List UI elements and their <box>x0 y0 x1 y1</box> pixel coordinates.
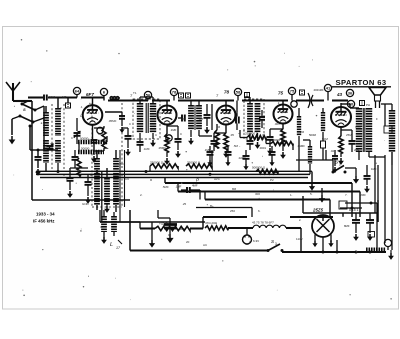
svg-text:250000 Ω: 250000 Ω <box>245 132 259 136</box>
svg-text:2M: 2M <box>300 130 305 134</box>
svg-text:75: 75 <box>290 88 295 93</box>
svg-text:25M: 25M <box>346 133 352 137</box>
svg-text:fil: fil <box>330 239 333 243</box>
svg-text:2.: 2. <box>140 193 143 197</box>
svg-text:41: 41 <box>326 85 331 90</box>
svg-text:50M: 50M <box>322 137 328 141</box>
svg-text:C14: C14 <box>355 125 361 129</box>
svg-text:.0001: .0001 <box>259 146 266 150</box>
svg-text:75: 75 <box>278 91 284 96</box>
svg-text:GND: GND <box>82 202 90 206</box>
svg-text:.0001MF: .0001MF <box>313 88 324 92</box>
svg-text:58: 58 <box>236 89 241 94</box>
svg-text:8MF: 8MF <box>344 224 350 228</box>
svg-text:50000: 50000 <box>80 137 89 141</box>
svg-text:C: C <box>60 106 62 110</box>
svg-text:C: C <box>63 173 65 177</box>
svg-text:L: L <box>110 242 113 248</box>
svg-text:6.: 6. <box>258 209 261 213</box>
svg-text:F: F <box>376 117 378 121</box>
svg-text:.01MF: .01MF <box>297 144 305 148</box>
svg-text:IF 456 kHz: IF 456 kHz <box>33 219 55 224</box>
svg-text:7.: 7. <box>345 193 348 197</box>
svg-text:.5MF: .5MF <box>162 185 169 189</box>
svg-text:6.3V: 6.3V <box>253 239 259 243</box>
svg-text:.001: .001 <box>274 122 280 126</box>
svg-text:2MF: 2MF <box>354 148 360 152</box>
svg-text:500000 Ω: 500000 Ω <box>270 138 284 142</box>
svg-text:.05MF: .05MF <box>158 146 166 150</box>
svg-text:C: C <box>71 136 73 140</box>
svg-text:.1MF: .1MF <box>143 147 150 151</box>
svg-text:.1MF: .1MF <box>175 185 182 189</box>
svg-text:5.: 5. <box>310 192 313 196</box>
svg-text:36: 36 <box>348 90 353 95</box>
svg-text:S: S <box>23 107 26 112</box>
svg-text:1.: 1. <box>168 233 171 237</box>
svg-text:64: 64 <box>75 88 80 93</box>
svg-text:C: C <box>180 132 182 136</box>
svg-text:T1: T1 <box>133 91 137 95</box>
svg-text:C9: C9 <box>125 177 129 181</box>
svg-text:300: 300 <box>98 132 103 136</box>
svg-text:.5M: .5M <box>233 144 239 148</box>
svg-text:250000 Ω: 250000 Ω <box>187 161 201 165</box>
svg-text:.1MF: .1MF <box>170 128 177 132</box>
svg-text:1.: 1. <box>290 193 293 197</box>
svg-text:78: 78 <box>172 89 177 94</box>
svg-text:AVC: AVC <box>214 177 221 181</box>
svg-text:2MF: 2MF <box>360 193 366 197</box>
svg-text:PH: PH <box>366 103 370 107</box>
svg-text:.25: .25 <box>182 202 187 206</box>
svg-text:2: 2 <box>339 163 341 167</box>
svg-text:.1MF: .1MF <box>204 148 211 152</box>
svg-text:.05MF: .05MF <box>108 119 117 123</box>
svg-text:C: C <box>243 129 245 133</box>
svg-text:3.: 3. <box>100 225 103 229</box>
svg-text:20: 20 <box>186 240 190 244</box>
svg-text:1M: 1M <box>216 125 221 129</box>
svg-text:500M: 500M <box>309 133 317 137</box>
svg-text:47Ω 20Ω: 47Ω 20Ω <box>205 221 218 225</box>
svg-text:1933 - 34: 1933 - 34 <box>36 212 55 217</box>
svg-text:2M: 2M <box>181 117 186 121</box>
svg-text:.0001: .0001 <box>48 95 56 99</box>
svg-text:6F7: 6F7 <box>86 92 94 97</box>
svg-text:250: 250 <box>230 209 235 213</box>
svg-text:.3M: .3M <box>198 117 204 121</box>
svg-text:2.: 2. <box>299 218 302 222</box>
svg-text:C: C <box>129 122 131 126</box>
svg-text:8M: 8M <box>232 187 237 191</box>
svg-text:4MF: 4MF <box>192 184 198 188</box>
svg-text:SPARTON 63: SPARTON 63 <box>336 78 387 87</box>
svg-text:MF: MF <box>62 95 66 99</box>
svg-text:.1: .1 <box>80 105 83 109</box>
svg-text:43 75 78 78 6F7: 43 75 78 78 6F7 <box>252 221 274 225</box>
svg-text:78: 78 <box>224 90 230 95</box>
svg-text:.05: .05 <box>230 133 234 137</box>
svg-text:43: 43 <box>336 92 343 97</box>
svg-text:250000 Ω: 250000 Ω <box>150 161 164 165</box>
svg-text:25Z5: 25Z5 <box>312 208 324 213</box>
svg-text:500000 Ω: 500000 Ω <box>252 166 266 170</box>
svg-text:OSC: OSC <box>118 162 125 166</box>
svg-text:1MF: 1MF <box>371 167 377 171</box>
svg-text:.02MF: .02MF <box>238 156 246 160</box>
svg-text:B+: B+ <box>210 204 214 208</box>
svg-text:110V: 110V <box>296 237 303 241</box>
svg-text:300: 300 <box>255 192 260 196</box>
svg-text:+41 Ω: +41 Ω <box>159 222 168 226</box>
svg-text:3: 3 <box>275 242 277 246</box>
svg-text:50000: 50000 <box>81 147 90 151</box>
svg-text:P2: P2 <box>270 178 274 182</box>
svg-text:.02: .02 <box>330 149 335 153</box>
